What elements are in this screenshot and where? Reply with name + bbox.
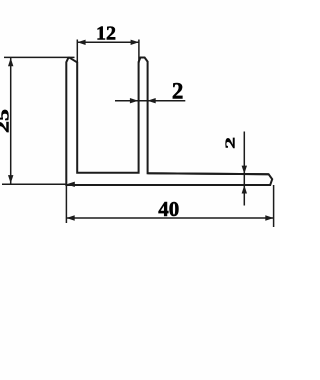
svg-text:2: 2 — [223, 137, 238, 149]
dimension line — [66, 217, 273, 219]
dimension 25 — [2, 57, 75, 184]
dimension line — [10, 57, 12, 183]
flange top line right of wall — [148, 173, 269, 174]
extension line right (x=139) — [138, 40, 140, 64]
svg-text:40: 40 — [158, 197, 179, 221]
arrow wall right (points left, tip at outer face) — [147, 98, 155, 103]
arrow flange top (points down, tip at top surface) — [242, 166, 247, 174]
extension line right — [273, 185, 275, 227]
arrow 25 top — [8, 58, 13, 66]
svg-text:25: 25 — [0, 109, 13, 133]
dimension 40 — [66, 185, 273, 227]
arrow flange bottom (points up, tip at bottom surface) — [242, 185, 247, 193]
arrow 12 right — [131, 40, 139, 45]
dimension line — [77, 41, 139, 43]
arrow 40 right — [265, 215, 273, 220]
extension line top — [4, 56, 75, 58]
dimension 2 (wall thickness) — [115, 100, 185, 102]
dimension 2 (flange thickness, right) — [243, 132, 245, 206]
svg-text:12: 12 — [96, 22, 116, 44]
extra arrow at bottom-left corner of flange (points left) — [67, 182, 75, 187]
arrow 25 bottom — [8, 175, 13, 183]
extension line left (below profile) — [65, 186, 67, 223]
arrow wall left (points right, tip at inner face) — [130, 98, 138, 103]
profile outline (aluminium F/L-section) — [66, 58, 272, 186]
arrow 40 left — [66, 215, 74, 220]
extension line bottom — [2, 183, 67, 185]
dimension 12 — [77, 40, 139, 64]
svg-text:2: 2 — [172, 79, 184, 104]
arrow 12 left — [77, 40, 85, 45]
extension line left (x=77.5) — [76, 40, 78, 64]
